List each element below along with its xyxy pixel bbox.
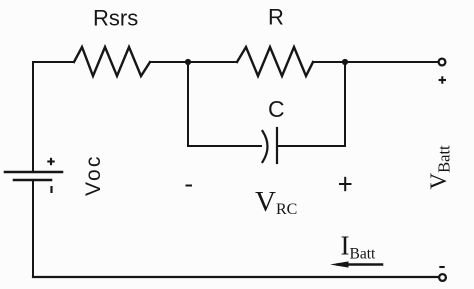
wire RC branch right vertical [344,62,346,146]
svg-text:R: R [268,5,284,30]
wire left rail lower [32,181,34,277]
current arrow IBatt head [330,261,349,267]
capacitor C left curved plate [263,131,268,162]
label terminal minus [439,266,444,268]
wire RC branch left vertical [187,62,189,146]
terminal positive circle [439,59,446,66]
svg-text:C: C [268,96,285,122]
wire left rail upper [32,62,34,171]
label VRC minus [186,185,193,187]
svg-text:Voc: Voc [82,154,105,196]
current arrow IBatt shaft [338,263,382,266]
label battery minus rotated [50,186,52,193]
resistor R [237,47,313,76]
label terminal plus [439,76,446,83]
terminal negative circle [439,274,446,281]
svg-text:VRC: VRC [255,186,297,218]
wire bottom rail [33,276,438,278]
node junction B [342,59,348,65]
label battery plus [47,158,54,165]
resistor Rsrs [74,47,150,76]
svg-text:VBatt: VBatt [426,145,454,190]
wire top rail left segment [33,61,72,63]
node junction A [185,59,191,65]
wire RC bottom left segment [188,145,261,147]
svg-text:Rsrs: Rsrs [93,6,138,31]
battery Voc top plate [5,171,62,174]
wire RC bottom right segment [277,145,345,147]
svg-text:IBatt: IBatt [341,231,377,263]
wire between Rsrs and R [150,61,237,63]
wire R to positive terminal [313,61,438,63]
battery Voc bottom plate [14,179,51,182]
capacitor C right plate [276,128,278,163]
label VRC plus [339,177,352,191]
